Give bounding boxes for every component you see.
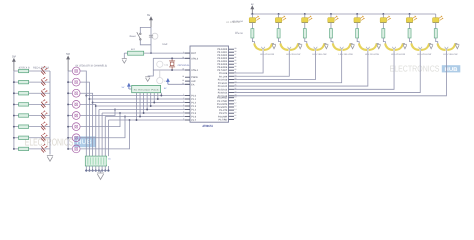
wire row 4 left block: [14, 103, 50, 105]
junction node P1.6: [124, 116, 126, 118]
LED D7 yellow top: [406, 14, 416, 23]
resistor R1 8K2: [128, 51, 144, 55]
pin P1.1 (2) left: [183, 97, 197, 101]
LED D6 red: [41, 122, 47, 130]
junction rail row 4: [13, 103, 15, 105]
svg-text:P1.3: P1.3: [191, 105, 196, 108]
resistor R2 470R vertical: [251, 23, 254, 38]
svg-text:5V: 5V: [147, 14, 150, 17]
svg-text:LED-YELLOW: LED-YELLOW: [391, 53, 406, 56]
junction rail col 3: [304, 13, 306, 15]
junction rail row 7: [13, 137, 15, 139]
svg-text:P1.0: P1.0: [191, 95, 196, 98]
pin P2.4/A12 (25) right: [218, 84, 237, 88]
wire RST to MCU: [124, 52, 190, 54]
ground left LED block: [47, 156, 53, 162]
wire P1.3 horizontal: [96, 105, 185, 107]
pin RST (9) left: [183, 51, 196, 55]
svg-text:P3.6/WR: P3.6/WR: [218, 115, 228, 118]
wire P1.2 horizontal: [93, 102, 185, 104]
svg-text:RST: RST: [191, 52, 196, 55]
pin P0.5/AD5 (34) right: [217, 62, 236, 66]
svg-text:P2.1/A9: P2.1/A9: [219, 75, 228, 78]
lamp L8: [72, 145, 80, 153]
junction lamp rail 6: [67, 126, 69, 128]
svg-text:P2.6/A14: P2.6/A14: [218, 92, 228, 95]
wire col 8 to P2.7: [234, 51, 446, 96]
wire XTAL1: [153, 69, 190, 71]
pin P3.6/WR (16) right: [218, 114, 236, 118]
wire RP1 pin 1 to P1.7: [136, 93, 138, 120]
svg-text:16: 16: [234, 114, 236, 117]
wire reset parallel loop: [140, 27, 151, 33]
svg-text:7: 7: [183, 114, 184, 117]
svg-text:11: 11: [234, 99, 236, 102]
pin P0.4/AD4 (35) right: [217, 59, 236, 63]
wire col 7 to P2.6: [234, 51, 420, 93]
resistor R8 470R: [19, 147, 29, 150]
ground crystal: [145, 77, 150, 82]
pin P2.7/A15 (28) right: [218, 94, 237, 98]
power +5V rail left LED block: [12, 55, 16, 71]
wire RP1 pin 2 to P1.6: [139, 93, 141, 117]
resistor R8 470R vertical: [408, 23, 411, 38]
wire lamp 2 left lead: [68, 81, 72, 83]
junction rail col 1: [251, 13, 253, 15]
wire lamp 4 to P1.3 net: [80, 104, 96, 156]
LED pair DL2 yellow wings: [279, 38, 299, 51]
resistor R4 470R vertical: [303, 23, 306, 38]
lamp L5: [72, 112, 80, 120]
wire RP1 pin 6 to P1.2: [153, 93, 155, 103]
wire RP2 commons to ground: [85, 166, 109, 173]
LED D4 yellow top: [328, 14, 338, 23]
svg-text:P2.5/A13: P2.5/A13: [218, 88, 228, 91]
pin P3.5/T1 (15) right: [219, 111, 236, 115]
svg-text:P3.5/T1: P3.5/T1: [219, 112, 228, 115]
svg-text:R2 470R: R2 470R: [235, 32, 244, 35]
junction node P1.0: [85, 95, 87, 97]
ground RP2: [97, 173, 104, 179]
LED D2 yellow top: [275, 14, 285, 23]
svg-text:13: 13: [234, 105, 236, 108]
svg-text:P2.3/A11: P2.3/A11: [218, 82, 228, 85]
svg-text:35: 35: [234, 59, 236, 62]
wire RP1 pin 4 to P1.4: [146, 93, 148, 110]
svg-text:LED-YELLOW: LED-YELLOW: [312, 53, 327, 56]
pin P2.0/A8 (21) right: [219, 71, 236, 75]
wire resnet drop P1.7: [107, 120, 109, 156]
wire row 3 left block: [14, 92, 50, 94]
pin P1.7 (8) left: [183, 118, 197, 122]
svg-text:34: 34: [234, 62, 236, 65]
capacitor C1: [157, 61, 169, 67]
wire lamp 3 to P1.2 net: [80, 93, 92, 156]
wire lamp 5 left lead: [68, 115, 72, 117]
crystal X1: [169, 57, 190, 71]
svg-text:29: 29: [182, 75, 184, 78]
wire col 3 to P2.2: [234, 51, 315, 80]
svg-text:38: 38: [234, 50, 236, 53]
lamp L3: [72, 89, 80, 97]
svg-text:LED-YELLOW: LED-YELLOW: [339, 53, 354, 56]
junction reset node: [150, 52, 152, 54]
wire top rail right array: [251, 13, 436, 15]
svg-text:P2.0/A8: P2.0/A8: [219, 72, 228, 75]
resistor R6 470R: [19, 125, 29, 128]
svg-text:33: 33: [234, 65, 236, 68]
svg-text:Reset: Reset: [130, 35, 136, 38]
ground col 6: [403, 44, 407, 49]
svg-text:31: 31: [182, 82, 184, 85]
wire RP1 pin 3 to P1.5: [143, 93, 145, 113]
resistor R3 470R vertical: [277, 23, 280, 38]
svg-text:P0.6/AD6: P0.6/AD6: [217, 66, 228, 69]
junction rail col 7: [409, 13, 411, 15]
svg-text:LED-YELLOW: LED-YELLOW: [417, 53, 432, 56]
wire lamp 6 to P1.5 net: [80, 113, 120, 127]
LED pair DL6 yellow wings: [383, 38, 403, 51]
junction rail col 5: [356, 13, 358, 15]
svg-text:3: 3: [183, 100, 184, 103]
svg-text:P0.2/AD2: P0.2/AD2: [217, 54, 228, 57]
svg-text:P0.3/AD3: P0.3/AD3: [217, 57, 228, 60]
pin P1.2 (3) left: [183, 100, 197, 104]
wire lamp 6 left lead: [68, 126, 72, 128]
watermark Electronics Hub bottom-left: [25, 136, 96, 148]
ground col 8: [455, 44, 459, 49]
svg-text:32: 32: [234, 68, 236, 71]
svg-text:P1.7: P1.7: [191, 119, 196, 122]
LED D8 red: [41, 144, 47, 152]
junction lamp rail 3: [67, 92, 69, 94]
wire cathode rail left block: [49, 71, 51, 155]
junction RP1 pin 4: [146, 109, 148, 111]
ground col 7: [429, 44, 433, 49]
wire P1.6 horizontal: [105, 116, 185, 118]
svg-text:ALE: ALE: [191, 80, 196, 83]
svg-text:P2.4/A12: P2.4/A12: [218, 85, 228, 88]
lamp L4: [72, 100, 80, 108]
watermark Electronics Hub right: [390, 64, 461, 74]
wire lamp 7 left lead: [68, 137, 72, 139]
svg-text:1: 1: [183, 93, 184, 96]
pin P0.2/AD2 (37) right: [217, 53, 236, 57]
svg-text:14: 14: [234, 108, 236, 111]
wire col 5 to P2.4: [234, 51, 368, 86]
wire row 1 left block: [14, 70, 50, 72]
wire: left power rail vertical: [13, 71, 15, 149]
button RESET: [137, 32, 141, 40]
wire P1.1 horizontal: [89, 98, 185, 100]
svg-text:ELECTRONICS: ELECTRONICS: [25, 137, 74, 148]
wire resnet drop P1.5: [101, 113, 103, 156]
svg-text:18: 18: [182, 56, 184, 59]
wire lamp 8 left lead: [68, 148, 72, 150]
power 5V rail lamp column: [66, 52, 70, 71]
LED D7 red: [41, 133, 47, 142]
junction lamp rail 4: [67, 103, 69, 105]
LED D1 red: [41, 66, 47, 74]
pin PSEN (29) left: [182, 75, 198, 79]
pin P2.2/A10 (23) right: [218, 77, 237, 81]
junction lamp rail 8: [67, 148, 69, 150]
svg-text:10uF: 10uF: [162, 43, 168, 46]
resistor R2 470R: [19, 80, 29, 83]
LED D4 red: [41, 99, 47, 107]
wire P1.5 horizontal: [102, 112, 185, 114]
LED D5 red: [41, 111, 47, 120]
resistor R7 470R vertical: [382, 23, 385, 38]
wire resnet drop P1.4: [98, 110, 100, 157]
svg-text:AT89C51: AT89C51: [202, 124, 213, 128]
svg-text:PSEN: PSEN: [191, 76, 198, 79]
svg-text:P3.2/INT0: P3.2/INT0: [217, 103, 228, 106]
resistor R3 470R: [19, 92, 29, 95]
ground reset: [122, 59, 127, 64]
svg-text:6: 6: [183, 111, 184, 114]
ground col 5: [377, 44, 381, 49]
wire row 7 left block: [14, 137, 50, 139]
resistor R5 470R: [19, 114, 29, 117]
resistor R7 470R: [19, 136, 29, 139]
pin XTAL2 (18) left: [182, 56, 199, 60]
wire lamp 2 to P1.1 net: [80, 82, 89, 156]
junction lamp rail 2: [67, 81, 69, 83]
junction node P1.4: [114, 109, 116, 111]
svg-text:36: 36: [234, 56, 236, 59]
resistor R6 470R vertical: [356, 23, 359, 38]
svg-text:P1.1: P1.1: [191, 98, 196, 101]
LED pair DL5 yellow wings: [357, 38, 377, 51]
pin P3.4/T0 (14) right: [219, 108, 236, 112]
wire lamp 1 left lead: [68, 70, 72, 72]
junction RP1 pin 8: [160, 95, 162, 97]
junction RP1 pin 6: [153, 102, 155, 104]
svg-text:LED-YELLOW: LED-YELLOW: [286, 53, 301, 56]
svg-text:4: 4: [183, 104, 184, 107]
svg-text:8X LEDS (OR 1K CHANNELS): 8X LEDS (OR 1K CHANNELS): [76, 64, 108, 67]
capacitor C3 10uF: [149, 33, 158, 39]
wire row 6 left block: [14, 126, 50, 128]
junction RP1 pin 3: [143, 112, 145, 114]
LED pair DL7 yellow wings: [410, 38, 430, 51]
svg-text:XTAL1: XTAL1: [191, 69, 199, 72]
pin P1.5 (6) left: [183, 111, 197, 115]
wire XTAL2: [153, 57, 190, 59]
svg-text:37: 37: [234, 53, 236, 56]
svg-text:RED-LED X 8: RED-LED X 8: [33, 67, 50, 70]
wire col 1 to P2.0: [234, 51, 263, 73]
ground col 4: [350, 44, 354, 49]
junction rail row 2: [13, 81, 15, 83]
svg-text:9: 9: [183, 51, 184, 54]
lamp L7: [72, 134, 80, 142]
wire row 8 left block: [14, 148, 50, 150]
wire lamp 1 to P1.0 net: [80, 71, 86, 156]
wire col 6 to P2.5: [234, 51, 394, 90]
LED pair DL3 yellow wings: [305, 38, 325, 51]
LED D3 red: [41, 88, 47, 96]
wire RP1 pin 7 to P1.1: [157, 93, 159, 99]
svg-text:P0.5/AD5: P0.5/AD5: [217, 63, 228, 66]
svg-text:ELECTRONICS: ELECTRONICS: [390, 64, 440, 74]
pin P2.1/A9 (22) right: [219, 74, 236, 78]
ground col 1: [272, 44, 276, 49]
resistor R9 470R vertical: [434, 23, 437, 38]
junction node P1.5: [119, 112, 121, 114]
junction RP1 pin 1: [136, 119, 138, 121]
svg-text:P0.4/AD4: P0.4/AD4: [217, 60, 228, 63]
wire lamp 3 left lead: [68, 92, 72, 94]
svg-text:P0.7/AD7: P0.7/AD7: [217, 69, 228, 72]
svg-text:EA: EA: [191, 83, 195, 86]
power 5V rail right array: [251, 3, 254, 14]
junction node P1.7: [129, 119, 131, 121]
pin P3.2/INT0 (12) right: [217, 102, 237, 106]
svg-text:P3.0/RXD: P3.0/RXD: [217, 97, 228, 100]
svg-text:2: 2: [183, 97, 184, 100]
svg-text:8x Resistor Pack: 8x Resistor Pack: [134, 88, 161, 91]
LED D1 yellow top: [249, 14, 259, 23]
svg-text:P3.4/T0: P3.4/T0: [219, 109, 228, 112]
svg-text:P3.1/TXD: P3.1/TXD: [217, 100, 227, 103]
junction rail col 4: [330, 13, 332, 15]
op IC U1 AT89C51 body: [190, 46, 229, 122]
pin P1.6 (7) left: [183, 114, 197, 118]
wire R1 to ground: [123, 53, 125, 58]
svg-text:30: 30: [182, 79, 184, 82]
pin P2.3/A11 (24) right: [218, 80, 236, 84]
junction rail col 2: [278, 13, 280, 15]
pin P0.7/AD7 (32) right: [217, 68, 236, 72]
wire lamp 7 to P1.6 net: [80, 117, 125, 138]
pin XTAL1 (19) left: [182, 68, 199, 72]
svg-text:P1.2: P1.2: [191, 102, 196, 105]
wire crystal left rail: [148, 58, 154, 76]
wire row 2 left block: [14, 81, 50, 83]
svg-text:5: 5: [183, 107, 184, 110]
power 5V reset: [147, 14, 152, 28]
pin P3.3/INT1 (13) right: [217, 105, 237, 109]
pin EA (31) left: [182, 82, 195, 86]
wire P1.7 horizontal: [108, 119, 185, 121]
pin P0.1/AD1 (38) right: [217, 50, 236, 54]
junction RP1 pin 5: [150, 105, 152, 107]
lamp L6: [72, 123, 80, 131]
svg-text:LED-YELLOW: LED-YELLOW: [232, 20, 243, 23]
svg-text:P1.4: P1.4: [191, 109, 196, 112]
junction lamp rail 5: [67, 115, 69, 117]
wire RP1 pin 8 to P1.0: [160, 93, 162, 96]
pin P2.5/A13 (26) right: [218, 87, 237, 91]
resistor R1 470R: [19, 69, 29, 72]
power 5V to pack RP1: [122, 84, 132, 89]
wire col 4 to P2.3: [234, 51, 342, 83]
svg-text:8: 8: [183, 118, 184, 121]
LED D2 red: [41, 77, 47, 86]
pin P3.0/RXD (10) right: [217, 95, 236, 99]
junction node P1.1: [89, 98, 91, 100]
junction node P1.2: [92, 102, 94, 104]
svg-text:P0.1/AD1: P0.1/AD1: [217, 51, 228, 54]
junction rail row 6: [13, 126, 15, 128]
pin P0.0/AD0 (39) right: [217, 47, 236, 51]
junction node P1.3: [95, 105, 97, 107]
svg-text:LED-YELLOW: LED-YELLOW: [443, 53, 458, 56]
svg-text:P3.7/RD: P3.7/RD: [219, 118, 228, 121]
svg-text:P1.5: P1.5: [191, 112, 196, 115]
wire lamp 4 left lead: [68, 103, 72, 105]
resistor R4 470R: [19, 103, 29, 106]
wire P1.0 horizontal: [86, 95, 185, 97]
junction rail col 6: [382, 13, 384, 15]
wire P1.4 horizontal: [99, 109, 185, 111]
ground col 2: [298, 44, 302, 49]
pin P3.1/TXD (11) right: [217, 99, 236, 103]
svg-text:CRYSTAL: CRYSTAL: [178, 64, 191, 67]
svg-text:19: 19: [182, 68, 184, 71]
lamp L1: [72, 67, 80, 75]
LED pair DL1 yellow wings: [252, 38, 272, 51]
LED D3 yellow top: [302, 14, 312, 23]
svg-text:P1.6: P1.6: [191, 116, 196, 119]
pin P3.7/RD (17) right: [219, 117, 237, 121]
svg-text:12: 12: [234, 102, 236, 105]
svg-text:17: 17: [234, 117, 236, 120]
capacitor C2: [157, 70, 169, 84]
svg-text:LED-YELLOW: LED-YELLOW: [365, 53, 380, 56]
svg-text:LED-YELLOW: LED-YELLOW: [260, 53, 275, 56]
svg-text:39: 39: [234, 47, 236, 50]
pin P0.6/AD6 (33) right: [217, 65, 236, 69]
junction lamp rail 7: [67, 137, 69, 139]
pin ALE (30) left: [182, 79, 196, 83]
wire RP1 pin 5 to P1.3: [150, 93, 152, 106]
pin P2.6/A14 (27) right: [218, 90, 237, 94]
pin P1.3 (4) left: [183, 104, 197, 108]
LED D5 yellow top: [354, 14, 364, 23]
lamp L2: [72, 78, 80, 86]
wire lamp 5 to P1.4 net: [80, 110, 115, 116]
resistor pack RP1: [132, 85, 161, 92]
wire: lamp column rail vertical: [67, 71, 69, 149]
resistor pack RP2 1k: [85, 156, 107, 166]
pin P0.3/AD3 (36) right: [217, 56, 236, 60]
junction rail row 3: [13, 92, 15, 94]
wire resnet drop P1.6: [104, 117, 106, 157]
junction RP1 pin 7: [157, 98, 159, 100]
svg-text:P3.3/INT1: P3.3/INT1: [217, 106, 228, 109]
junction rail row 8: [13, 148, 15, 150]
ground col 3: [324, 44, 328, 49]
wire lamp 8 to P1.7 net: [80, 120, 129, 149]
wire col 2 to P2.1: [234, 51, 289, 76]
svg-text:P0.0/AD0: P0.0/AD0: [217, 48, 228, 51]
LED D6 yellow top: [380, 14, 390, 23]
LED D8 yellow top: [433, 14, 443, 23]
LED pair DL4 yellow wings: [331, 38, 351, 51]
pin P1.4 (5) left: [183, 107, 197, 111]
pin P1.0 (1) left: [183, 93, 197, 97]
power 5V to EA pin: [164, 79, 190, 90]
wire row 5 left block: [14, 115, 50, 117]
LED pair DL8 yellow wings: [436, 38, 456, 51]
svg-text:XTAL2: XTAL2: [191, 57, 199, 60]
resistor R5 470R vertical: [329, 23, 332, 38]
svg-text:P2.2/A10: P2.2/A10: [218, 79, 228, 82]
junction RP1 pin 2: [139, 116, 141, 118]
